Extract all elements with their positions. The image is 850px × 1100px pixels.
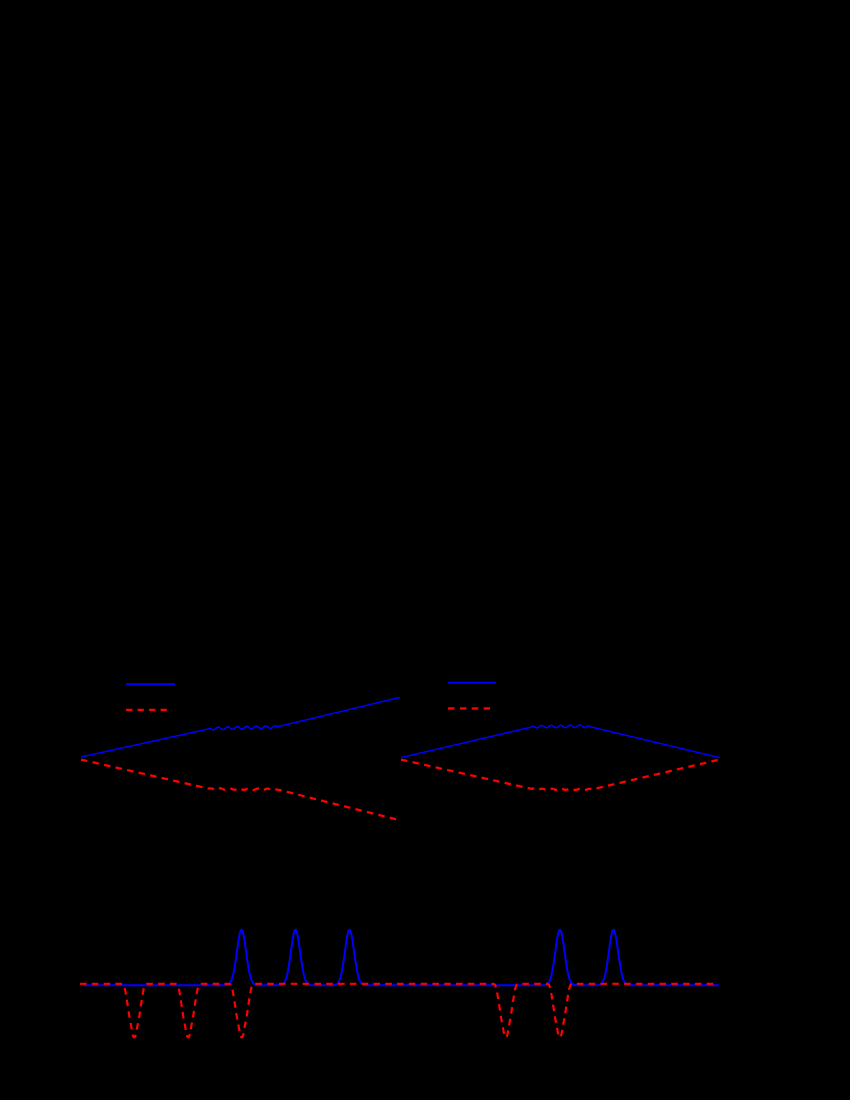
left plot: blue solid curve rising with central oscillation bbox=[81, 698, 400, 757]
legend sample: right plot blue solid line (series 1) bbox=[448, 682, 496, 684]
right plot: red dashed inverted-tent curve bbox=[401, 760, 720, 790]
right plot: blue solid tent curve with central oscillation bbox=[401, 725, 720, 757]
bottom plot: blue solid baseline with five upward Gaussian pulses bbox=[84, 930, 720, 986]
left plot: red dashed curve descending with central flat oscillation bbox=[81, 760, 400, 820]
bottom plot: red dashed baseline with five downward Gaussian pulses bbox=[80, 984, 717, 1038]
legend sample: left plot red dashed line (series 2) bbox=[126, 709, 168, 711]
legend sample: right plot red dashed line (series 2) bbox=[448, 707, 490, 709]
legend sample: left plot blue solid line (series 1) bbox=[126, 683, 175, 685]
